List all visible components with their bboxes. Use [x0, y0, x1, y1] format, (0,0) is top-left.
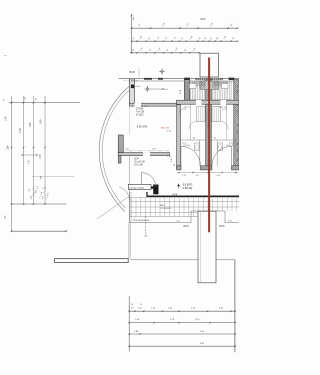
svg-text:-1.80 (M): -1.80 (M) — [182, 187, 192, 190]
svg-text:14: 14 — [131, 304, 133, 306]
svg-text:B04: B04 — [135, 158, 140, 161]
svg-text:(1.12): (1.12) — [222, 109, 228, 111]
svg-text:(2.5): (2.5) — [195, 319, 200, 321]
svg-text:14⁵: 14⁵ — [3, 215, 7, 219]
svg-text:(16.114): (16.114) — [135, 164, 144, 166]
svg-text:SW 8: SW 8 — [160, 205, 166, 207]
svg-text:14⁵: 14⁵ — [25, 97, 27, 100]
svg-text:138⁵: 138⁵ — [6, 145, 10, 150]
svg-text:(11.114): (11.114) — [226, 145, 233, 147]
svg-text:1.9⁵: 1.9⁵ — [237, 130, 239, 134]
svg-text:+TS W BOX: +TS W BOX — [160, 208, 172, 210]
svg-text:24 Stg 17,5/28: 24 Stg 17,5/28 — [129, 186, 144, 189]
svg-text:(1.12): (1.12) — [181, 109, 187, 111]
svg-text:(11.114): (11.114) — [183, 145, 190, 147]
svg-text:2.26: 2.26 — [125, 149, 129, 151]
svg-text:1.38: 1.38 — [40, 154, 42, 159]
svg-text:88⁵: 88⁵ — [237, 149, 239, 152]
svg-text:84.8: 84.8 — [130, 70, 136, 74]
svg-text:90: 90 — [140, 304, 142, 306]
svg-text:8.05: 8.05 — [177, 221, 181, 223]
svg-text:170⁵: 170⁵ — [3, 116, 7, 121]
svg-text:(6.336): (6.336) — [136, 113, 144, 116]
svg-text:7.36: 7.36 — [19, 128, 22, 133]
svg-text:98⁵: 98⁵ — [40, 176, 42, 179]
svg-text:xxx xxx: xxx xxx — [161, 126, 170, 129]
svg-text:6.96 STB: 6.96 STB — [137, 125, 148, 128]
svg-text:BUS: BUS — [184, 225, 189, 228]
svg-text:WF 1.0: WF 1.0 — [141, 106, 149, 108]
svg-text:BH B: BH B — [173, 194, 178, 196]
svg-text:2.0⁵: 2.0⁵ — [171, 158, 173, 162]
svg-text:2.2⁵: 2.2⁵ — [237, 110, 239, 114]
svg-text:130⁵: 130⁵ — [28, 122, 32, 127]
svg-text:▼: ▼ — [132, 85, 134, 88]
svg-text:+0.00: +0.00 — [135, 86, 141, 88]
svg-text:140⁵: 140⁵ — [39, 119, 43, 124]
svg-text:637: 637 — [201, 17, 206, 21]
svg-text:1.38: 1.38 — [152, 149, 156, 151]
svg-text:8.05: 8.05 — [229, 221, 233, 223]
svg-text:Drr.Alt OB: Drr.Alt OB — [135, 161, 146, 164]
svg-text:9⁵: 9⁵ — [4, 99, 6, 101]
svg-text:+TB 40 BUS RAUD: +TB 40 BUS RAUD — [132, 219, 151, 222]
svg-text:BUS: BUS — [220, 225, 225, 228]
svg-text:88: 88 — [174, 164, 176, 166]
